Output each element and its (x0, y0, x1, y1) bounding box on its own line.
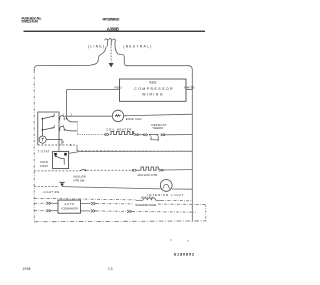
connector (46, 202, 51, 205)
connector (91, 202, 96, 205)
wire between heater and defrost therm (139, 134, 144, 136)
cold control box (53, 151, 69, 168)
wire: fan to bus (124, 114, 193, 116)
evap fan motor (112, 110, 123, 121)
coil heater element R1 (110, 131, 133, 134)
svg-text:CONT.: CONT. (40, 164, 49, 168)
wire: dotted drop to coil heater (77, 122, 104, 134)
wire: switch to mullion heater (dashed) (87, 169, 132, 171)
interior light LP1 (160, 180, 172, 192)
water valve wire row (34, 198, 136, 200)
defrost timer box (38, 112, 59, 145)
svg-text:HTR. SW.: HTR. SW. (74, 179, 86, 183)
icemaker wire row 1 left (34, 202, 46, 204)
icemaker wire row 1 right (81, 203, 91, 205)
svg-text:EVAP. FAN: EVAP. FAN (126, 117, 142, 121)
mullion heater switch S4 (34, 170, 79, 172)
junction node (70, 144, 72, 146)
connector (91, 210, 96, 213)
bottom cabinet border (34, 220, 206, 223)
svg-text:WIRING: WIRING (142, 93, 163, 97)
svg-text:5995214140: 5995214140 (22, 20, 39, 24)
svg-text:RED: RED (115, 85, 123, 89)
compressor box text (134, 81, 173, 97)
svg-text:13: 13 (108, 267, 113, 271)
wire: cold control to bus (69, 151, 193, 153)
cold control feed stub (58, 145, 60, 151)
svg-text:FRT18NRGD: FRT18NRGD (103, 18, 121, 22)
wire: timer terminal 4 to bus (dashed) (59, 145, 192, 151)
timer terminal numbers (63, 114, 73, 144)
label DEFROST THERM. (151, 123, 167, 130)
timer motor M1 (39, 136, 46, 143)
svg-text:COMPRESSOR: COMPRESSOR (134, 87, 173, 91)
icemaker wire row 2 left (34, 210, 46, 212)
wire white: compressor to bus (186, 89, 192, 91)
svg-text:SOLENOID VALVE: SOLENOID VALVE (135, 203, 156, 207)
svg-text:(NEUTRAL): (NEUTRAL) (123, 45, 151, 49)
defrost thermostat S3 (144, 134, 165, 142)
svg-text:COIL HEATER: COIL HEATER (106, 128, 132, 132)
cold control switch (56, 156, 64, 164)
svg-text:MULLION HTR.: MULLION HTR. (138, 173, 159, 177)
connector (132, 169, 141, 172)
header publication text (22, 16, 42, 23)
timer contacts right of box (54, 114, 77, 131)
auto icemaker box (58, 200, 81, 213)
footer specks (170, 239, 171, 240)
compressor box U1 (120, 79, 187, 101)
wire: neutral side from plug to right bus (115, 46, 192, 221)
mullion heater R2 (141, 167, 158, 170)
wire: line side from plug to left drop (34, 46, 106, 70)
wire: therm to bus (165, 134, 193, 136)
plug P1 prongs (105, 39, 116, 47)
connector (105, 133, 109, 136)
wire: switch to lamp (62, 187, 160, 189)
svg-text:(LINE): (LINE) (88, 45, 104, 49)
svg-text:SEE: SEE (149, 81, 157, 85)
svg-text:WHITE: WHITE (184, 85, 195, 89)
svg-text:THERM.: THERM. (152, 126, 164, 130)
light switch S5 (34, 186, 59, 188)
connector (46, 209, 51, 212)
svg-text:LIGHT SW.: LIGHT SW. (44, 190, 61, 194)
icemaker wire row 2 right (81, 210, 91, 212)
svg-text:T’STAT: T’STAT (38, 150, 50, 154)
wire: left cabinet drop (dashed) (33, 71, 35, 222)
timer junction dots (42, 116, 68, 131)
timer internal wiring (42, 116, 62, 144)
wire: mullion heater to bus (163, 169, 192, 171)
ground symbol (109, 63, 114, 67)
svg-text:1998: 1998 (23, 267, 31, 271)
label COLD CONT (40, 160, 49, 168)
water solenoid coil L1 (143, 198, 156, 200)
connector (127, 210, 132, 213)
evap fan feed wire (65, 115, 113, 117)
wire red: compressor to timer feed (67, 90, 120, 118)
connector (159, 169, 163, 172)
ground wire dashed (110, 47, 112, 63)
connector (134, 133, 138, 136)
header rule (24, 31, 206, 32)
wire: lamp to bus (172, 188, 192, 190)
right border drop (dashed) (205, 205, 207, 221)
svg-text:S180802: S180802 (174, 251, 195, 256)
cold control terminals (54, 153, 57, 156)
svg-text:ICEMAKER: ICEMAKER (61, 206, 77, 210)
label MULLION HTR. SW. (74, 175, 86, 183)
